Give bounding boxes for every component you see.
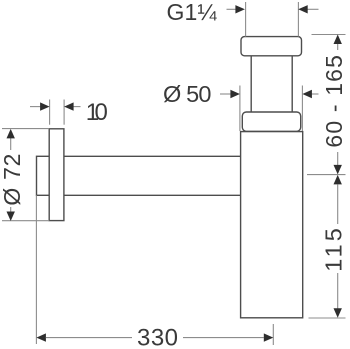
neck pipe left line (250, 56, 252, 112)
10 right arrow (72, 106, 81, 108)
O72 bottom extension line (2, 220, 49, 222)
G1 1/4 right arrow (307, 8, 319, 10)
10 left extension line (49, 100, 51, 125)
trap body cylinder (241, 132, 303, 318)
330 right arrow (183, 337, 264, 339)
60-165 top extension line (312, 34, 346, 36)
O50 right extension line (301, 86, 303, 132)
trap collar ring (242, 112, 300, 131)
O72 bottom arrow (10, 207, 12, 212)
O50 left arrow (220, 93, 232, 95)
O50 right arrow (311, 93, 319, 95)
330 left arrow (36, 333, 46, 341)
O72 top arrow (10, 138, 12, 150)
union nut (241, 37, 302, 56)
O50 left extension line (239, 86, 241, 132)
svg-text:Ø 50: Ø 50 (163, 81, 212, 107)
10 left arrow (30, 106, 42, 108)
neck pipe right line (291, 56, 293, 112)
svg-text:330: 330 (137, 324, 178, 349)
svg-text:115: 115 (320, 228, 346, 272)
wall stub pipe (37, 156, 50, 195)
330 right extension line (body axis) (272, 324, 274, 345)
60-165 bottom arrow (337, 152, 339, 166)
horizontal pipe bottom line (64, 194, 241, 196)
svg-text:G1¼: G1¼ (167, 0, 218, 25)
115 top arrow (334, 175, 342, 185)
wall flange disc (49, 129, 64, 221)
330 left extension line (wall face) (35, 195, 37, 344)
60-165 top arrow (334, 35, 342, 45)
thread tailpiece right line (297, 2, 299, 37)
body bottom extension line (309, 317, 346, 319)
thread tailpiece left line (245, 2, 247, 37)
svg-text:Ø 72: Ø 72 (0, 154, 25, 206)
G1 1/4 left arrow (227, 8, 238, 10)
O72 top extension line (2, 128, 49, 130)
115 bottom arrow (337, 273, 339, 309)
10 right extension line (63, 100, 65, 125)
pipe centreline extension line (shared) (307, 174, 346, 176)
horizontal pipe top line (64, 155, 241, 157)
svg-text:10: 10 (86, 99, 108, 126)
